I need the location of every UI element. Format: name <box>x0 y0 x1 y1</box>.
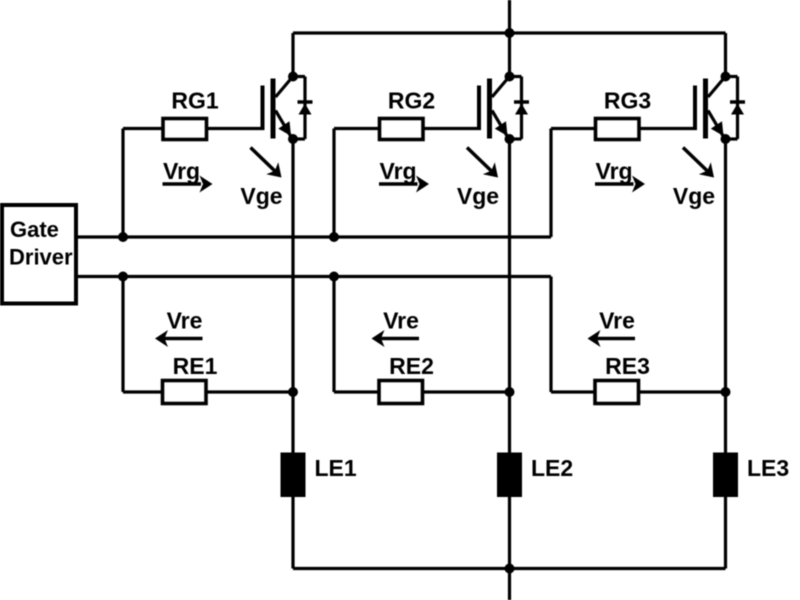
node RE1 junction <box>288 387 298 397</box>
wire RG2 right lead <box>423 127 481 130</box>
wire Q1 collector lead <box>291 33 294 77</box>
node gate bus dot 1 <box>118 232 128 242</box>
transistor Q3 <box>695 78 725 139</box>
wire emitter branch 2 vertical <box>332 277 335 393</box>
node RE3 junction <box>721 387 731 397</box>
wire gate bus <box>76 235 551 238</box>
svg-text:Vre: Vre <box>167 308 203 334</box>
svg-text:Vrg: Vrg <box>380 158 417 184</box>
wire top feed <box>508 0 511 33</box>
wire RG1 right lead <box>207 127 265 130</box>
node Q1 collector <box>288 72 298 82</box>
arrow Vrg 3 <box>595 176 645 193</box>
arrow Vge 1 <box>251 148 282 178</box>
gate driver U1 <box>2 205 76 304</box>
wire gate branch 1 vertical <box>121 129 124 238</box>
wire RG3 left lead <box>551 127 597 130</box>
svg-text:Vge: Vge <box>673 183 715 209</box>
wire RE1 left lead <box>123 390 164 393</box>
svg-text:Vre: Vre <box>383 308 419 334</box>
svg-text:RE1: RE1 <box>173 353 218 379</box>
arrow Vrg 2 <box>379 176 429 193</box>
resistor RG3 <box>596 119 640 140</box>
wire bottom emitter bus <box>293 567 726 570</box>
wire emitter branch 3 vertical <box>549 277 552 393</box>
svg-text:RE2: RE2 <box>389 353 434 379</box>
resistor RE2 <box>379 381 423 404</box>
node RE2 junction <box>505 387 515 397</box>
node Q3 emitter <box>721 134 731 144</box>
inductor LE2 <box>497 453 522 498</box>
wire bottom stub <box>508 569 511 600</box>
inductor LE3 <box>713 453 738 498</box>
node Q2 emitter <box>505 134 515 144</box>
wire RG1 left lead <box>123 127 164 130</box>
node bottom bus junction <box>505 564 515 574</box>
wire RE3 right lead <box>639 390 726 393</box>
svg-text:LE1: LE1 <box>315 455 357 481</box>
diode D3 <box>726 77 746 140</box>
wire emitter return bus <box>76 275 551 278</box>
svg-text:Vge: Vge <box>240 183 282 209</box>
svg-text:Vrg: Vrg <box>596 158 633 184</box>
diode D2 <box>510 77 530 140</box>
resistor RE1 <box>163 381 207 404</box>
arrow Vre 2 <box>372 330 420 347</box>
wire Q2 emitter line <box>508 139 511 569</box>
wire RE2 left lead <box>334 390 380 393</box>
wire Q3 collector lead <box>724 33 727 77</box>
wire Q1 emitter line <box>291 139 294 569</box>
wire gate branch 3 vertical <box>549 129 552 238</box>
wire gate branch 2 vertical <box>332 129 335 238</box>
diode D1 <box>293 77 313 140</box>
svg-text:RE3: RE3 <box>605 353 650 379</box>
wire RG2 left lead <box>334 127 381 130</box>
wire RG3 right lead <box>639 127 697 130</box>
arrow Vge 3 <box>683 148 714 178</box>
wire RE3 left lead <box>551 390 596 393</box>
svg-text:RG3: RG3 <box>604 88 651 114</box>
svg-text:LE2: LE2 <box>531 455 573 481</box>
svg-text:Vrg: Vrg <box>163 158 200 184</box>
resistor RE3 <box>595 381 639 404</box>
svg-text:Driver: Driver <box>9 245 73 270</box>
transistor Q1 <box>263 78 293 139</box>
node top bus junction <box>505 28 515 38</box>
svg-text:Vge: Vge <box>457 183 499 209</box>
wire Q3 emitter line <box>724 139 727 569</box>
wire emitter branch 1 vertical <box>121 277 124 393</box>
svg-text:Gate: Gate <box>10 217 59 242</box>
resistor RG1 <box>163 119 207 140</box>
wire top collector bus <box>293 31 726 34</box>
inductor LE1 <box>281 453 306 498</box>
wire RE2 right lead <box>423 390 510 393</box>
node emitter bus dot 2 <box>329 272 339 282</box>
svg-text:Vre: Vre <box>599 308 635 334</box>
node emitter bus dot 1 <box>118 272 128 282</box>
wire RE1 right lead <box>206 390 293 393</box>
transistor Q2 <box>479 78 509 139</box>
svg-text:RG1: RG1 <box>171 88 219 114</box>
node Q3 collector <box>721 72 731 82</box>
node gate bus dot 2 <box>329 232 339 242</box>
node Q2 collector <box>505 72 515 82</box>
resistor RG2 <box>380 119 424 140</box>
svg-text:LE3: LE3 <box>747 455 789 481</box>
svg-text:RG2: RG2 <box>388 88 435 114</box>
arrow Vre 3 <box>588 330 636 347</box>
wire Q2 collector lead <box>508 33 511 77</box>
arrow Vre 1 <box>155 330 203 347</box>
arrow Vrg 1 <box>163 176 213 193</box>
node Q1 emitter <box>288 134 298 144</box>
arrow Vge 2 <box>467 148 498 178</box>
